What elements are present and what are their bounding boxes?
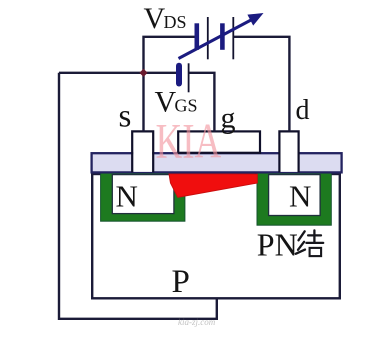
svg-text:N: N: [289, 179, 311, 214]
svg-text:g: g: [221, 102, 236, 135]
svg-text:KIA: KIA: [156, 113, 222, 169]
svg-text:d: d: [296, 95, 310, 126]
svg-text:P: P: [172, 264, 190, 300]
svg-text:kia-zj.com: kia-zj.com: [178, 317, 216, 327]
svg-text:PN: PN: [257, 227, 298, 263]
svg-text:V: V: [144, 2, 166, 35]
svg-text:N: N: [116, 179, 138, 214]
svg-text:DS: DS: [164, 12, 187, 32]
svg-text:s: s: [119, 99, 132, 135]
